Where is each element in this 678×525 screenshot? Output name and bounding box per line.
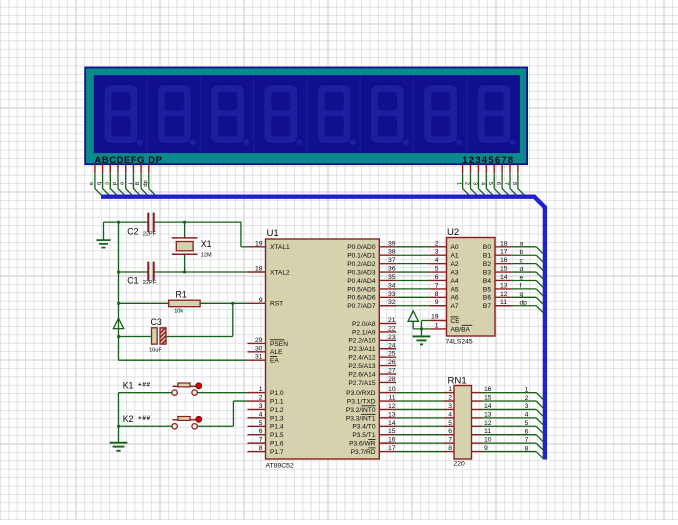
svg-text:7: 7 xyxy=(435,282,439,289)
U1 pin 19 XTAL1 xyxy=(248,240,291,251)
svg-text:3: 3 xyxy=(259,403,263,410)
wire B3 to bus, net d xyxy=(512,266,544,280)
svg-text:B7: B7 xyxy=(483,303,491,310)
svg-text:7: 7 xyxy=(259,437,263,444)
svg-text:C3: C3 xyxy=(151,317,162,327)
resistor R1 xyxy=(169,289,200,314)
svg-text:7: 7 xyxy=(525,437,529,444)
svg-text:26: 26 xyxy=(388,359,396,366)
display segment labels ABCDEFG DP xyxy=(95,154,163,165)
RN1 pin 15 xyxy=(472,395,492,402)
svg-text:220: 220 xyxy=(454,460,466,467)
svg-text:ALE: ALE xyxy=(270,349,283,356)
junction K2 rail xyxy=(117,425,120,428)
svg-text:R1: R1 xyxy=(176,289,187,299)
U2 pin 9 A7 xyxy=(430,299,459,310)
junction C2 rail xyxy=(117,221,120,224)
wire AB/BA to ground xyxy=(413,328,430,330)
display digit-select pin 3 with wire to bus xyxy=(471,164,484,195)
svg-text:35: 35 xyxy=(388,274,396,281)
svg-text:24: 24 xyxy=(388,342,396,349)
wire P3.7 to RN1 pin 8 xyxy=(396,451,444,453)
svg-text:2: 2 xyxy=(448,395,452,402)
svg-text:U2: U2 xyxy=(447,227,459,238)
wire RST to C3 vertical xyxy=(167,303,233,336)
svg-text:P2.5/A13: P2.5/A13 xyxy=(348,363,375,370)
capacitor C3 (electrolytic) xyxy=(119,317,167,353)
svg-text:3: 3 xyxy=(435,249,439,256)
button K2 xyxy=(123,414,202,429)
wire C2 right plate to XTAL1 bend xyxy=(154,221,247,246)
button K1 xyxy=(123,381,202,396)
U1 pin 30 ALE xyxy=(248,345,284,356)
display digit-select pin 8 with wire to bus xyxy=(511,164,524,195)
U2 pin 4 A2 xyxy=(430,257,459,268)
svg-text:10k: 10k xyxy=(174,309,183,315)
wire P0.6 to U2 A6 xyxy=(396,296,430,298)
wire RN1 pin 11 to bus, net 6 xyxy=(482,429,544,443)
U1 pin 3 P1.2 xyxy=(248,403,284,414)
svg-text:P1.4: P1.4 xyxy=(270,424,284,431)
svg-text:P1.3: P1.3 xyxy=(270,415,284,422)
svg-text:36: 36 xyxy=(388,266,396,273)
svg-text:11: 11 xyxy=(500,299,507,306)
svg-text:6: 6 xyxy=(435,274,439,281)
wire CE to ground xyxy=(422,321,430,337)
svg-text:XTAL2: XTAL2 xyxy=(270,269,290,276)
wire EA row xyxy=(119,359,248,361)
svg-text:27: 27 xyxy=(388,368,396,375)
svg-text:d: d xyxy=(520,266,524,273)
svg-text:P3.6/WR: P3.6/WR xyxy=(349,441,376,448)
wire X1 to XTAL2 net xyxy=(184,254,186,272)
svg-text:18: 18 xyxy=(255,266,263,273)
svg-text:18: 18 xyxy=(500,240,508,247)
svg-text:e: e xyxy=(520,274,524,281)
svg-text:15: 15 xyxy=(500,266,508,273)
svg-text:19: 19 xyxy=(431,314,439,321)
wire P3.3 to RN1 pin 4 xyxy=(396,417,444,419)
svg-text:RN1: RN1 xyxy=(448,376,467,387)
display digit-select pin 5 with wire to bus xyxy=(487,164,500,195)
svg-text:2: 2 xyxy=(435,240,439,247)
wire P3.1 to RN1 pin 2 xyxy=(396,400,444,402)
svg-text:P0.1/AD1: P0.1/AD1 xyxy=(347,253,376,260)
ground (top-left) xyxy=(96,222,110,248)
svg-text:A4: A4 xyxy=(451,278,459,285)
RN1 pin 4 xyxy=(444,411,454,418)
svg-text:dp: dp xyxy=(142,180,148,186)
svg-text:7: 7 xyxy=(448,437,452,444)
svg-text:P2.0/A8: P2.0/A8 xyxy=(352,321,376,328)
wire ground to C2 left plate xyxy=(104,221,148,223)
svg-text:B0: B0 xyxy=(483,244,491,251)
svg-text:P0.2/AD2: P0.2/AD2 xyxy=(347,261,376,268)
svg-text:15: 15 xyxy=(388,428,396,435)
RN1 pin 16 xyxy=(472,386,492,393)
svg-text:2: 2 xyxy=(259,395,263,402)
svg-text:16: 16 xyxy=(388,437,396,444)
display digit 8 xyxy=(467,75,516,153)
svg-text:P3.4/T0: P3.4/T0 xyxy=(352,424,375,431)
svg-text:2: 2 xyxy=(525,395,529,402)
wire RST row left xyxy=(119,302,169,304)
U1 pin 14 P3.4/T0 xyxy=(352,420,396,431)
svg-text:37: 37 xyxy=(388,257,396,264)
U1 pin 17 P3.7/RD xyxy=(351,445,397,456)
display digit 6 xyxy=(360,75,409,153)
svg-text:8: 8 xyxy=(259,445,263,452)
svg-text:dp: dp xyxy=(520,300,528,307)
svg-text:P2.4/A12: P2.4/A12 xyxy=(348,355,375,362)
U1 pin 34 P0.5/AD5 xyxy=(347,282,396,293)
wire K1/K2 ground vertical xyxy=(118,393,120,443)
wire RN1 pin 16 to bus, net 1 xyxy=(482,386,544,400)
display digit 7 xyxy=(414,75,463,153)
svg-text:ABCDEFG DP: ABCDEFG DP xyxy=(95,154,163,165)
svg-text:K1: K1 xyxy=(123,381,134,391)
U1 pin 29 PSEN xyxy=(248,337,289,348)
svg-text:1: 1 xyxy=(525,386,529,393)
wire K2 right to P1.1 xyxy=(197,401,247,426)
wire RN1 pin 13 to bus, net 4 xyxy=(482,412,544,426)
svg-text:22PF: 22PF xyxy=(143,280,157,286)
svg-text:5: 5 xyxy=(259,420,263,427)
U1 pin 22 P2.1/A9 xyxy=(352,325,396,336)
svg-text:B3: B3 xyxy=(483,270,491,277)
svg-text:XTAL1: XTAL1 xyxy=(270,244,290,251)
svg-text:B4: B4 xyxy=(483,278,491,285)
display digit-select pin 4 with wire to bus xyxy=(479,164,492,195)
U1 pin 23 P2.2/A10 xyxy=(348,334,396,345)
wire B4 to bus, net e xyxy=(512,274,544,288)
svg-text:33: 33 xyxy=(388,291,396,298)
display digit-select pin 1 with wire to bus xyxy=(456,164,469,195)
svg-text:1: 1 xyxy=(448,386,452,393)
svg-text:C1: C1 xyxy=(127,275,138,285)
RN1 pin 12 xyxy=(472,420,492,427)
display digit-select pin 7 with wire to bus xyxy=(503,164,516,195)
svg-text:+##: +## xyxy=(138,415,151,422)
svg-text:X1: X1 xyxy=(201,239,212,249)
RN1 pin 10 xyxy=(472,437,492,444)
svg-text:12345678: 12345678 xyxy=(462,154,514,165)
svg-text:C2: C2 xyxy=(127,226,138,236)
svg-text:P1.0: P1.0 xyxy=(270,390,284,397)
U1 pin 36 P0.3/AD3 xyxy=(347,266,396,277)
svg-text:8: 8 xyxy=(448,445,452,452)
svg-text:21: 21 xyxy=(388,317,396,324)
junction C3 rail xyxy=(117,335,120,338)
crystal X1 xyxy=(172,238,212,259)
U2 pin 12 B6 xyxy=(483,291,512,302)
display segment pin a with wire to bus xyxy=(88,164,101,195)
junction CE net xyxy=(420,328,423,331)
svg-text:b: b xyxy=(96,182,102,185)
RN1 pin 6 xyxy=(444,428,454,435)
svg-text:EA: EA xyxy=(270,358,279,365)
svg-text:P3.1/TXD: P3.1/TXD xyxy=(347,398,376,405)
U2 pin 1 AB/BA xyxy=(430,322,473,333)
U2 pin 15 B3 xyxy=(483,266,512,277)
svg-text:4: 4 xyxy=(448,411,452,418)
junction X1 bottom xyxy=(183,271,186,274)
wire B7 to bus, net dp xyxy=(512,300,544,314)
wire K1 right to P1.0 xyxy=(197,392,247,394)
svg-text:3: 3 xyxy=(448,403,452,410)
svg-text:b: b xyxy=(520,249,524,256)
display segment pin c with wire to bus xyxy=(103,164,116,195)
svg-text:B5: B5 xyxy=(483,286,491,293)
svg-text:A6: A6 xyxy=(451,295,459,302)
wire RN1 pin 10 to bus, net 7 xyxy=(482,437,544,451)
svg-text:6: 6 xyxy=(448,428,452,435)
svg-text:9: 9 xyxy=(435,299,439,306)
wire B5 to bus, net f xyxy=(512,283,544,297)
display digit 5 xyxy=(307,75,356,153)
svg-text:13: 13 xyxy=(500,282,508,289)
svg-text:B2: B2 xyxy=(483,261,491,268)
svg-text:CE: CE xyxy=(451,318,461,325)
U2 pin 16 B2 xyxy=(483,257,512,268)
RN1 pin 3 xyxy=(444,403,454,410)
svg-text:1: 1 xyxy=(259,386,263,393)
display digit labels 12345678 xyxy=(462,154,514,165)
U1 pin 15 P3.5/T1 xyxy=(352,428,396,439)
ground-net vertical wire (left rail) xyxy=(118,222,120,360)
wire X1 to XTAL1 net xyxy=(184,222,186,238)
U1 pin 37 P0.2/AD2 xyxy=(347,257,396,268)
svg-text:RST: RST xyxy=(270,301,283,308)
U2 pin 6 A4 xyxy=(430,274,459,285)
RN1 pin 11 xyxy=(472,428,492,435)
U1 pin 25 P2.4/A12 xyxy=(348,351,396,362)
svg-text:3: 3 xyxy=(525,403,529,410)
U1 pin 7 P1.6 xyxy=(248,437,284,448)
svg-text:P2.1/A9: P2.1/A9 xyxy=(352,329,376,336)
svg-text:23: 23 xyxy=(388,334,396,341)
svg-text:14: 14 xyxy=(500,274,508,281)
svg-text:12M: 12M xyxy=(201,253,212,259)
wire B6 to bus, net g xyxy=(512,291,544,305)
RN1 pin 9 xyxy=(472,445,489,452)
svg-text:39: 39 xyxy=(388,240,396,247)
wire B1 to bus, net b xyxy=(512,249,544,263)
junction RST rail xyxy=(117,302,120,305)
wire P0.7 to U2 A7 xyxy=(396,305,430,307)
svg-text:14: 14 xyxy=(388,420,396,427)
display segment pin f with wire to bus xyxy=(126,164,139,195)
display segment pin e with wire to bus xyxy=(119,164,132,195)
wire P3.5 to RN1 pin 6 xyxy=(396,434,444,436)
wire P3.4 to RN1 pin 5 xyxy=(396,425,444,427)
U2 pin 19 CE xyxy=(430,314,461,325)
svg-text:P0.7/AD7: P0.7/AD7 xyxy=(347,303,376,310)
wire RN1 pin 12 to bus, net 5 xyxy=(482,420,544,434)
svg-text:6: 6 xyxy=(259,428,263,435)
svg-text:AB/BA: AB/BA xyxy=(451,326,471,333)
U2 pin 2 A0 xyxy=(430,240,459,251)
U1 pin 24 P2.3/A11 xyxy=(349,342,396,353)
wire P0.4 to U2 A4 xyxy=(396,279,430,281)
wire P0.2 to U2 A2 xyxy=(396,263,430,265)
svg-text:A7: A7 xyxy=(451,303,459,310)
wire RN1 pin 15 to bus, net 2 xyxy=(482,395,544,409)
svg-text:31: 31 xyxy=(255,354,263,361)
display segment pin dp with wire to bus xyxy=(142,164,155,195)
svg-text:d: d xyxy=(111,182,117,185)
svg-text:17: 17 xyxy=(388,445,396,452)
U1 pin 1 P1.0 xyxy=(248,386,284,397)
U1 pin 13 P3.3/INT1 xyxy=(346,411,396,422)
U2 pin 8 A6 xyxy=(430,291,459,302)
U1 pin 10 P3.0/RXD xyxy=(346,386,396,397)
wire RST row right xyxy=(200,302,247,304)
U1 pin 8 P1.7 xyxy=(248,445,284,456)
display digit 2 xyxy=(147,75,196,153)
wire P0.0 to U2 A0 xyxy=(396,246,430,248)
svg-text:P2.6/A14: P2.6/A14 xyxy=(348,371,375,378)
wire P3.0 to RN1 pin 1 xyxy=(396,392,444,394)
resistor network RN1 body xyxy=(448,376,472,468)
microcontroller U1 AT89C52 body xyxy=(266,228,380,470)
display digit 1 xyxy=(104,85,143,146)
U1 pin 4 P1.3 xyxy=(248,411,284,422)
RN1 pin 5 xyxy=(444,420,454,427)
svg-text:P1.1: P1.1 xyxy=(270,398,284,405)
svg-text:P3.2/INT0: P3.2/INT0 xyxy=(346,407,376,414)
svg-text:17: 17 xyxy=(500,249,508,256)
svg-text:A3: A3 xyxy=(451,270,459,277)
svg-text:P3.0/RXD: P3.0/RXD xyxy=(346,390,376,397)
svg-text:U1: U1 xyxy=(267,228,279,239)
svg-text:P0.4/AD4: P0.4/AD4 xyxy=(347,278,376,285)
svg-text:AT89C52: AT89C52 xyxy=(266,463,294,470)
U1 pin 12 P3.2/INT0 xyxy=(346,403,396,414)
svg-text:A0: A0 xyxy=(451,244,459,251)
svg-text:12: 12 xyxy=(388,403,396,410)
capacitor C1 xyxy=(127,262,156,287)
svg-text:1: 1 xyxy=(435,322,439,329)
svg-text:4: 4 xyxy=(525,412,529,419)
svg-text:4: 4 xyxy=(259,411,263,418)
power terminal (left, on ground rail) xyxy=(113,318,123,328)
U1 pin 5 P1.4 xyxy=(248,420,284,431)
svg-text:10uF: 10uF xyxy=(149,347,162,353)
U1 pin 16 P3.6/WR xyxy=(349,437,396,448)
wire K2 left to ground rail xyxy=(119,425,172,427)
svg-text:7: 7 xyxy=(503,182,509,185)
U2 pin 17 B1 xyxy=(483,249,512,260)
svg-text:74LS245: 74LS245 xyxy=(446,339,473,346)
7-segment display module body xyxy=(85,68,527,165)
display digit 3 xyxy=(200,75,249,153)
display digit-select pin 6 with wire to bus xyxy=(495,164,508,195)
svg-text:P0.0/AD0: P0.0/AD0 xyxy=(347,244,376,251)
svg-text:P0.5/AD5: P0.5/AD5 xyxy=(347,286,376,293)
svg-text:A2: A2 xyxy=(451,261,459,268)
wire P0.5 to U2 A5 xyxy=(396,288,430,290)
svg-text:8: 8 xyxy=(511,182,517,185)
wire RN1 pin 9 to bus, net 8 xyxy=(482,445,544,459)
svg-text:25: 25 xyxy=(388,351,396,358)
display digit-select pin 2 with wire to bus xyxy=(464,164,477,195)
svg-text:g: g xyxy=(134,182,140,185)
RN1 pin 1 xyxy=(444,386,454,393)
svg-text:4: 4 xyxy=(435,257,439,264)
svg-text:3: 3 xyxy=(471,182,477,185)
svg-text:P2.3/A11: P2.3/A11 xyxy=(349,346,376,353)
capacitor C2 xyxy=(127,213,156,238)
buffer U2 74LS245 body xyxy=(446,227,496,346)
svg-text:5: 5 xyxy=(435,266,439,273)
svg-text:A1: A1 xyxy=(451,253,459,260)
svg-text:5: 5 xyxy=(487,182,493,185)
svg-text:22: 22 xyxy=(388,325,396,332)
U2 pin 5 A3 xyxy=(430,266,459,277)
svg-text:g: g xyxy=(520,291,524,298)
U2 pin 11 B7 xyxy=(483,299,512,310)
svg-text:5: 5 xyxy=(448,420,452,427)
ground (below K1 K2) xyxy=(110,443,128,451)
ground (U2) xyxy=(413,336,431,344)
svg-text:P2.2/A10: P2.2/A10 xyxy=(348,338,375,345)
svg-text:34: 34 xyxy=(388,282,396,289)
svg-text:c: c xyxy=(103,182,109,185)
svg-text:P1.6: P1.6 xyxy=(270,441,284,448)
svg-text:11: 11 xyxy=(388,395,395,402)
svg-text:1: 1 xyxy=(456,182,462,185)
svg-text:P1.7: P1.7 xyxy=(270,449,284,456)
svg-text:P0.6/AD6: P0.6/AD6 xyxy=(347,295,376,302)
RN1 pin 13 xyxy=(472,411,492,418)
svg-text:8: 8 xyxy=(525,445,529,452)
svg-text:16: 16 xyxy=(500,257,508,264)
svg-text:6: 6 xyxy=(525,429,529,436)
RN1 pin 8 xyxy=(444,445,454,452)
svg-text:19: 19 xyxy=(255,240,263,247)
svg-text:5: 5 xyxy=(525,420,529,427)
svg-text:30: 30 xyxy=(255,345,263,352)
svg-text:12: 12 xyxy=(500,291,508,298)
wire K1 left to ground rail xyxy=(119,392,172,394)
wire RN1 pin 14 to bus, net 3 xyxy=(482,403,544,417)
U1 pin 27 P2.6/A14 xyxy=(348,368,396,379)
svg-text:a: a xyxy=(520,241,524,248)
wire B0 to bus, net a xyxy=(512,241,544,255)
power terminal (U2 enable net) xyxy=(408,311,418,329)
U1 pin 31 EA xyxy=(248,354,280,365)
svg-text:P1.5: P1.5 xyxy=(270,432,284,439)
svg-text:2: 2 xyxy=(464,182,470,185)
svg-text:B6: B6 xyxy=(483,295,491,302)
RN1 pin 14 xyxy=(472,403,492,410)
wire P0.1 to U2 A1 xyxy=(396,254,430,256)
svg-text:8: 8 xyxy=(435,291,439,298)
U1 pin 35 P0.4/AD4 xyxy=(347,274,396,285)
U2 pin 3 A1 xyxy=(430,249,459,260)
svg-text:P3.7/RD: P3.7/RD xyxy=(351,449,376,456)
U1 pin 21 P2.0/A8 xyxy=(352,317,396,328)
svg-text:P0.3/AD3: P0.3/AD3 xyxy=(347,270,376,277)
U1 pin 18 XTAL2 xyxy=(248,266,291,277)
U2 pin 7 A5 xyxy=(430,282,459,293)
U1 pin 26 P2.5/A13 xyxy=(348,359,396,370)
U2 pin 13 B5 xyxy=(483,282,512,293)
svg-text:A5: A5 xyxy=(451,286,459,293)
svg-text:28: 28 xyxy=(388,376,396,383)
svg-text:P3.3/INT1: P3.3/INT1 xyxy=(346,415,376,422)
